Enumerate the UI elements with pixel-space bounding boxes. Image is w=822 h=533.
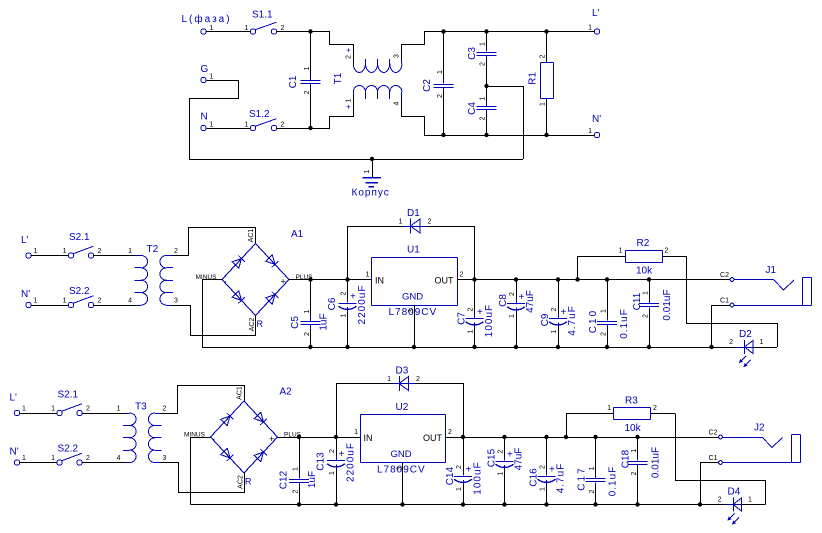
svg-text:C2: C2 (422, 79, 433, 92)
svg-text:2: 2 (428, 219, 432, 226)
junction ground rail at GND pin (400, 502, 404, 506)
wire to switch S2.2 (20, 462, 57, 464)
svg-text:1: 1 (51, 455, 55, 462)
wire switch to transformer pin 4 (94, 305, 136, 307)
svg-text:2: 2 (98, 298, 102, 305)
svg-text:1: 1 (22, 455, 26, 462)
junction ground rail at C9 (556, 345, 560, 349)
svg-text:2: 2 (642, 314, 649, 318)
svg-text:L': L' (592, 8, 600, 19)
C5 labels (290, 309, 330, 336)
svg-text:1: 1 (364, 169, 371, 173)
capacitor C13 (327, 437, 345, 505)
svg-text:2: 2 (729, 339, 733, 346)
wire midpoint to chassis rail (487, 87, 524, 160)
C17 labels (577, 466, 619, 497)
transformer T3 (123, 402, 162, 463)
switch S2.2 (57, 453, 82, 465)
wire regulator OUT to OUT node (446, 437, 464, 439)
svg-text:2: 2 (340, 291, 347, 295)
junction plus rail x=649 (647, 277, 651, 281)
svg-text:C18: C18 (621, 449, 632, 468)
junction R1 top (544, 29, 548, 33)
wire R branch up from plus rail (567, 414, 608, 438)
svg-text:+: + (519, 292, 525, 303)
wire diode to OUT node (415, 384, 464, 438)
svg-text:S2.2: S2.2 (58, 444, 79, 455)
node G input terminal (201, 64, 214, 83)
svg-text:L': L' (21, 235, 29, 246)
svg-text:1: 1 (346, 98, 353, 102)
svg-text:D2: D2 (739, 329, 752, 340)
svg-text:N': N' (592, 114, 601, 125)
svg-text:C8: C8 (498, 294, 509, 307)
svg-text:2: 2 (281, 122, 285, 129)
C12 labels (279, 467, 319, 494)
svg-text:+: + (339, 449, 345, 460)
svg-text:N': N' (10, 447, 19, 458)
svg-text:1: 1 (631, 448, 638, 452)
svg-text:3: 3 (408, 309, 415, 313)
svg-text:S1.2: S1.2 (249, 109, 270, 120)
svg-text:0.01uF: 0.01uF (662, 289, 673, 320)
C13 labels (316, 442, 357, 482)
C1 labels (288, 66, 311, 94)
svg-text:+: + (344, 104, 353, 109)
diode D3 (392, 376, 415, 391)
wire ground rail (191, 504, 701, 506)
node L(фаза) input terminal (182, 13, 232, 34)
svg-text:1: 1 (479, 96, 486, 100)
wire transformer pin3 to bridge AC2 (172, 306, 256, 336)
wire plus rail OUT node to jack (463, 437, 718, 439)
svg-text:1: 1 (642, 291, 649, 295)
svg-text:AC2: AC2 (237, 475, 244, 489)
R2 labels (619, 238, 669, 277)
junction plus rail x=607 (593, 435, 597, 439)
svg-text:1: 1 (117, 406, 121, 413)
svg-text:+: + (281, 277, 286, 287)
node N' input terminal (21, 289, 38, 308)
switch S2.2 (68, 296, 93, 308)
svg-text:1: 1 (437, 70, 444, 74)
svg-text:C10: C10 (588, 309, 599, 333)
junction plus rail x=516 (514, 277, 518, 281)
svg-text:J1: J1 (766, 265, 777, 276)
svg-text:S2.1: S2.1 (69, 232, 90, 243)
svg-text:2: 2 (448, 429, 452, 436)
svg-text:1: 1 (748, 497, 752, 504)
C9 labels (540, 305, 578, 336)
svg-text:1: 1 (479, 42, 486, 46)
junction ground rail at C16 (544, 502, 548, 506)
wire bottom rail C2 to N' terminal (444, 135, 595, 137)
capacitor C4 (477, 86, 497, 135)
svg-text:2: 2 (589, 489, 596, 493)
C4 labels (467, 96, 486, 120)
svg-text:OUT: OUT (423, 433, 443, 443)
wire S1.1 to C1 top junction (277, 31, 311, 33)
LED D2 (737, 340, 760, 367)
regulator U1 (366, 245, 464, 319)
wire G to chassis rail (190, 81, 239, 160)
svg-text:1uF: 1uF (319, 313, 330, 330)
C7 labels (457, 304, 496, 337)
wire chassis rail (189, 159, 523, 161)
svg-text:1uF: 1uF (307, 471, 318, 488)
svg-text:R: R (245, 477, 252, 487)
svg-text:4: 4 (128, 298, 132, 305)
R1 labels (528, 54, 547, 106)
C15 labels (487, 448, 525, 476)
junction ground rail at C18 (635, 502, 639, 506)
svg-text:1: 1 (589, 466, 596, 470)
svg-text:4.7uF: 4.7uF (567, 305, 578, 336)
svg-text:1: 1 (22, 406, 26, 413)
svg-text:2: 2 (281, 25, 285, 32)
svg-text:3: 3 (163, 455, 167, 462)
svg-text:U1: U1 (407, 245, 420, 256)
svg-text:+: + (350, 292, 356, 303)
svg-text:R1: R1 (528, 72, 539, 85)
svg-text:1: 1 (509, 314, 516, 318)
capacitor C8 (507, 280, 525, 348)
wire plus rail PLUS to IN node (311, 279, 348, 281)
C6 labels (327, 285, 368, 325)
D4 labels (718, 487, 752, 504)
capacitor C11 (639, 280, 659, 348)
svg-text:4: 4 (393, 101, 400, 105)
junction ground rail at C15 (502, 502, 506, 506)
T1 pin1 label and polarity (344, 98, 353, 109)
wire bridge PLUS to plus rail (278, 437, 300, 439)
node N input terminal (201, 112, 214, 131)
wire to switch S2.1 (20, 413, 57, 415)
svg-text:D3: D3 (396, 366, 409, 377)
wire bridge PLUS to plus rail (289, 279, 311, 281)
svg-text:-: - (224, 277, 227, 287)
junction C2 top (441, 29, 445, 33)
wire ground rail junction to LED pin2 (700, 504, 726, 506)
bridge rectifier A1 (222, 229, 304, 316)
svg-text:47uF: 47uF (514, 448, 525, 471)
svg-text:2: 2 (539, 54, 546, 58)
wire C1 bottom junction to T1 pin1 (311, 98, 354, 129)
svg-text:+: + (561, 307, 567, 318)
svg-text:C17: C17 (577, 466, 588, 490)
junction IN node (345, 277, 349, 281)
junction ground rail at C13 (334, 502, 338, 506)
LED D4 (726, 498, 749, 525)
svg-text:D1: D1 (407, 208, 420, 219)
svg-text:1: 1 (607, 405, 611, 412)
junction ground rail at C10 (605, 345, 609, 349)
capacitor C5 (301, 280, 321, 348)
svg-text:1: 1 (34, 298, 38, 305)
svg-text:2: 2 (304, 332, 311, 336)
svg-text:2: 2 (292, 489, 299, 493)
svg-text:R2: R2 (637, 238, 650, 249)
bridge rectifier A2 (211, 387, 293, 474)
svg-text:2: 2 (479, 116, 486, 120)
junction ground rail at C5 (308, 345, 312, 349)
svg-text:IN: IN (364, 433, 373, 443)
wire switch to transformer pin 4 (82, 462, 124, 464)
wire to switch S2.2 (31, 305, 68, 307)
capacitor C2 (434, 32, 454, 136)
junction C2 bottom (441, 133, 445, 137)
svg-text:N': N' (21, 289, 30, 300)
junction C1 bottom (308, 126, 312, 130)
svg-text:C6: C6 (327, 297, 338, 310)
switch S2.1 (68, 246, 93, 258)
svg-text:1: 1 (600, 309, 607, 313)
wire R branch up from plus rail (578, 257, 619, 280)
svg-text:1: 1 (245, 122, 249, 129)
svg-text:GND: GND (391, 449, 412, 460)
wire N to S1.2 (206, 128, 250, 130)
junction plus rail x=516 (502, 435, 506, 439)
svg-text:2200uF: 2200uF (346, 442, 357, 482)
svg-text:1: 1 (304, 309, 311, 313)
C10 labels (588, 308, 630, 339)
svg-text:100uF: 100uF (484, 304, 495, 337)
svg-text:+: + (507, 450, 513, 461)
svg-text:2: 2 (467, 307, 474, 311)
wire T1 pin4 to bottom-right rail (402, 98, 444, 136)
svg-text:2: 2 (163, 406, 167, 413)
svg-text:C7: C7 (457, 312, 468, 325)
wire IN node to regulator IN pin (336, 437, 360, 439)
junction chassis ground (370, 157, 374, 161)
svg-text:U2: U2 (396, 402, 409, 413)
svg-text:C2: C2 (709, 430, 718, 437)
bridge PLUS label (281, 274, 314, 287)
svg-text:S1.1: S1.1 (252, 10, 273, 21)
capacitor C17 (586, 437, 606, 505)
C2 labels (422, 70, 444, 98)
svg-text:1: 1 (551, 329, 558, 333)
svg-text:S2.1: S2.1 (58, 390, 79, 401)
wire regulator GND pin to ground rail (402, 463, 404, 505)
wire transformer pin2 to bridge AC1 (161, 386, 245, 414)
svg-text:C16: C16 (529, 468, 540, 487)
svg-text:AC1: AC1 (248, 229, 255, 243)
wire jack C1 to ground rail (701, 463, 719, 505)
svg-text:+: + (269, 434, 274, 444)
svg-text:1: 1 (210, 74, 214, 81)
D2 labels (729, 329, 763, 346)
svg-text:AC2: AC2 (249, 318, 256, 332)
svg-text:1: 1 (128, 248, 132, 255)
capacitor C16 (538, 437, 556, 505)
svg-text:T2: T2 (147, 244, 159, 255)
svg-text:+: + (549, 465, 555, 476)
svg-text:3: 3 (174, 298, 178, 305)
capacitor C7 (466, 280, 484, 348)
junction plus rail R branch (564, 435, 568, 439)
svg-text:1: 1 (304, 66, 311, 70)
svg-text:C15: C15 (487, 448, 498, 467)
svg-text:C4: C4 (467, 102, 478, 115)
node L' input terminal (21, 235, 38, 258)
wire C1 top junction to T1 pin2 (311, 32, 354, 60)
resistor R3 (607, 408, 675, 420)
svg-text:C3: C3 (467, 47, 478, 60)
regulator U2 (354, 402, 452, 476)
junction ground rail at C14 (461, 502, 465, 506)
svg-text:1: 1 (63, 298, 67, 305)
jack J1 (730, 265, 811, 307)
junction plus rail at C5 (297, 435, 301, 439)
svg-text:1: 1 (292, 467, 299, 471)
svg-text:1: 1 (619, 248, 623, 255)
svg-text:L(фаза): L(фаза) (182, 13, 232, 25)
svg-text:1: 1 (588, 128, 592, 135)
junction C3 top (484, 29, 488, 33)
svg-text:AC1: AC1 (236, 386, 243, 400)
junction plus rail x=558 (544, 435, 548, 439)
svg-text:2: 2 (346, 55, 353, 59)
svg-text:2: 2 (437, 94, 444, 98)
svg-text:1: 1 (210, 122, 214, 129)
svg-text:1: 1 (467, 329, 474, 333)
resistor R2 (619, 251, 687, 263)
svg-text:47uF: 47uF (525, 290, 536, 313)
svg-text:2: 2 (631, 471, 638, 475)
wire IN node to diode D1 (348, 227, 404, 280)
junction plus rail R branch (575, 277, 579, 281)
capacitor C15 (496, 437, 514, 505)
svg-text:2: 2 (718, 497, 722, 504)
jack J2 (719, 423, 801, 465)
junction C1 top (308, 29, 312, 33)
C14 labels (445, 461, 484, 494)
svg-text:0.1uF: 0.1uF (619, 308, 630, 339)
svg-text:T1: T1 (333, 72, 344, 84)
C11 labels (632, 289, 673, 320)
wire ground rail junction to LED pin2 (712, 347, 738, 349)
svg-text:2: 2 (329, 449, 336, 453)
svg-text:1: 1 (34, 248, 38, 255)
inductor T1 bottom winding (pins 1-4) (353, 85, 402, 98)
capacitor C6 (339, 280, 357, 348)
svg-text:C11: C11 (632, 292, 643, 310)
svg-text:1: 1 (340, 313, 347, 317)
wire bridge MINUS to ground rail (203, 280, 223, 348)
svg-text:1: 1 (354, 429, 358, 436)
svg-text:A2: A2 (280, 387, 293, 398)
svg-text:10k: 10k (636, 266, 653, 277)
svg-text:C14: C14 (445, 466, 456, 485)
svg-text:1: 1 (497, 471, 504, 475)
R3 labels (607, 396, 657, 435)
C18 labels (621, 447, 662, 478)
wire IN node to regulator IN pin (348, 279, 372, 281)
wire regulator GND pin to ground rail (414, 305, 416, 347)
svg-text:2: 2 (497, 449, 504, 453)
node L' output terminal (588, 8, 600, 34)
wire diode to OUT node (427, 227, 475, 280)
svg-text:C5: C5 (290, 316, 301, 329)
svg-text:2: 2 (304, 90, 311, 94)
C16 labels (529, 463, 567, 494)
junction ground rail at C17 (593, 502, 597, 506)
svg-text:1: 1 (539, 102, 546, 106)
svg-text:C1: C1 (720, 298, 729, 305)
capacitor C1 (301, 32, 321, 129)
svg-text:C1: C1 (288, 75, 299, 88)
svg-text:1: 1 (329, 471, 336, 475)
wire switch to transformer pin 1 (94, 255, 136, 257)
svg-text:1: 1 (51, 406, 55, 413)
svg-text:2: 2 (416, 376, 420, 383)
wire switch to transformer pin 1 (82, 413, 124, 415)
junction plus rail at C5 (308, 277, 312, 281)
wire T1 pin3 to top-right rail (402, 32, 444, 60)
capacitor C18 (628, 437, 648, 505)
svg-text:Корпус: Корпус (352, 188, 390, 199)
capacitor C3 (477, 32, 497, 87)
capacitor C10 (597, 280, 617, 348)
svg-text:+: + (344, 47, 353, 52)
junction plus rail x=607 (605, 277, 609, 281)
wire top rail C2 to L' terminal (444, 31, 595, 33)
svg-text:S2.2: S2.2 (69, 286, 90, 297)
svg-text:C2: C2 (720, 272, 729, 279)
junction ground rail at C11 (647, 345, 651, 349)
junction ground rail at GND pin (412, 345, 416, 349)
junction ground rail at C7 (472, 345, 476, 349)
svg-text:R3: R3 (625, 396, 638, 407)
wire transformer pin2 to bridge AC1 (172, 228, 256, 256)
svg-text:R: R (257, 319, 264, 329)
wire transformer pin3 to bridge AC2 (161, 463, 245, 493)
svg-text:D4: D4 (728, 487, 741, 498)
junction ground rail at C6 (345, 345, 349, 349)
svg-text:4.7uF: 4.7uF (556, 463, 567, 494)
ground symbol Корпус (chassis) (363, 159, 381, 187)
svg-text:2: 2 (509, 292, 516, 296)
svg-text:2: 2 (86, 455, 90, 462)
svg-text:OUT: OUT (435, 276, 455, 286)
svg-text:1: 1 (399, 219, 403, 226)
diode D1 (404, 219, 427, 234)
svg-text:2: 2 (174, 248, 178, 255)
svg-text:2: 2 (86, 406, 90, 413)
svg-text:IN: IN (375, 276, 384, 286)
svg-text:J2: J2 (754, 423, 765, 434)
svg-text:3: 3 (393, 54, 400, 58)
svg-text:10k: 10k (625, 423, 642, 434)
svg-text:1: 1 (760, 339, 764, 346)
svg-text:-: - (212, 434, 215, 444)
node L' input terminal (10, 393, 27, 416)
wire L to S1.1 (206, 31, 250, 33)
wire S1.2 to C1 bottom junction (277, 128, 311, 130)
wire LED pin1 to R pin2 path (753, 347, 777, 349)
bridge MINUS label (196, 274, 227, 287)
capacitor C12 (289, 437, 309, 505)
svg-text:T3: T3 (135, 402, 147, 413)
junction ground rail at C12 (297, 502, 301, 506)
svg-text:1: 1 (456, 487, 463, 491)
C3 labels (467, 42, 486, 66)
capacitor C14 (454, 437, 472, 505)
D1 labels (399, 208, 432, 226)
svg-text:2: 2 (460, 272, 464, 279)
svg-text:2: 2 (479, 62, 486, 66)
